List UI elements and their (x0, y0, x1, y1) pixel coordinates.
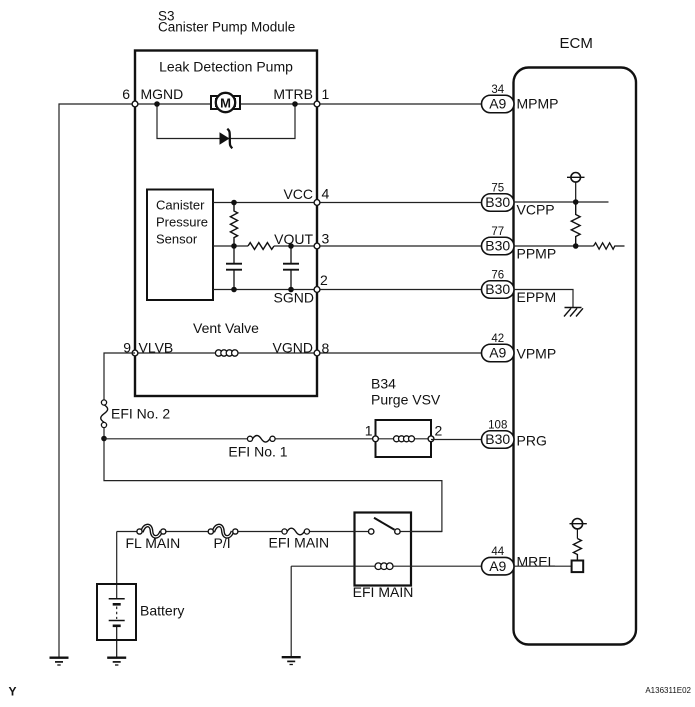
node PPMP junction (573, 243, 579, 249)
svg-text:MPMP: MPMP (517, 96, 559, 112)
wire VCC (213, 202, 482, 204)
svg-text:44: 44 (491, 546, 504, 558)
svg-text:2: 2 (435, 423, 443, 439)
svg-text:Purge VSV: Purge VSV (371, 392, 441, 408)
wire EPPM internal (514, 290, 574, 308)
fuse EFI No.2 (101, 400, 108, 428)
svg-text:3: 3 (322, 231, 330, 247)
ground EPPM signal (564, 308, 583, 317)
battery box (97, 584, 136, 640)
fuse P/I (208, 525, 238, 536)
svg-text:4: 4 (322, 186, 330, 202)
svg-text:A136311E02: A136311E02 (645, 686, 691, 695)
wire inside purge VSV (376, 438, 432, 440)
svg-text:VGND: VGND (273, 340, 313, 356)
resistor R1 vertical (230, 203, 237, 247)
driver box MREL (572, 561, 584, 573)
pin 3 VOUT (314, 243, 320, 249)
node VOUT-R1 (231, 243, 237, 249)
svg-text:SGND: SGND (274, 290, 314, 306)
node MTRB junction (292, 101, 298, 107)
capacitor C1 (226, 246, 242, 290)
svg-text:108: 108 (488, 420, 507, 432)
svg-text:A9: A9 (489, 345, 506, 361)
resistor R2 horizontal (248, 243, 274, 250)
svg-text:Sensor: Sensor (156, 232, 198, 247)
svg-text:EFI MAIN: EFI MAIN (353, 584, 414, 600)
svg-text:PRG: PRG (517, 433, 547, 449)
wire MGND left branch to ground (59, 104, 135, 658)
svg-text:VOUT: VOUT (274, 231, 313, 247)
relay contact left (369, 529, 374, 534)
canister pressure sensor box (147, 190, 213, 301)
svg-text:34: 34 (491, 84, 504, 96)
node VCPP junction (573, 199, 579, 205)
svg-text:MTRB: MTRB (273, 86, 313, 102)
svg-text:B30: B30 (485, 281, 510, 297)
svg-text:P/I: P/I (214, 535, 231, 551)
svg-text:B30: B30 (485, 194, 510, 210)
pin 4 VCC (314, 200, 320, 206)
motor M1 (211, 93, 240, 112)
capacitor C2 (283, 246, 299, 290)
svg-text:Canister Pump Module: Canister Pump Module (158, 20, 295, 35)
ground G1 (50, 658, 69, 665)
power symbol B+ VCPP (567, 173, 585, 203)
module box S3 Canister Pump Module (135, 51, 317, 397)
svg-text:77: 77 (491, 226, 504, 238)
resistor R4 PPMP (594, 243, 625, 249)
diode branch wire (157, 104, 295, 139)
svg-text:A9: A9 (489, 558, 506, 574)
pin 2 purge VSV (428, 436, 434, 442)
resistor R3 pull-up (571, 202, 580, 246)
wire VOUT (213, 245, 248, 247)
relay switch blade (374, 518, 395, 530)
connector 44 A9 MREL (482, 546, 515, 575)
node MGND junction (154, 101, 160, 107)
svg-text:B34: B34 (371, 376, 396, 392)
connector 42 A9 VPMP (482, 333, 515, 362)
pin 6 MGND (132, 101, 138, 107)
svg-text:FL MAIN: FL MAIN (126, 535, 181, 551)
resistor R5 MREL (573, 539, 581, 561)
pin 8 VGND (314, 350, 320, 356)
wire battery feed row (117, 531, 140, 533)
wire vent valve row (135, 352, 317, 354)
svg-text:ECM: ECM (560, 35, 593, 52)
diode D1 (220, 129, 233, 149)
wire relay coil row (291, 565, 481, 567)
fuse EFI No.1 (247, 436, 275, 443)
svg-text:VCPP: VCPP (517, 202, 555, 218)
wire MTRB to ECM connector (317, 103, 482, 105)
svg-text:Vent Valve: Vent Valve (193, 320, 259, 336)
inductor relay coil (375, 563, 393, 570)
relay box EFI MAIN (355, 513, 412, 586)
wire VCPP internal (514, 201, 609, 203)
svg-text:MGND: MGND (141, 86, 184, 102)
svg-text:VLVB: VLVB (139, 340, 174, 356)
wire EFI No.1 row (104, 438, 250, 440)
pin 1 MTRB (314, 101, 320, 107)
wire SGND (213, 289, 482, 291)
svg-text:B30: B30 (485, 431, 510, 447)
connector 77 B30 PPMP (482, 226, 515, 255)
svg-text:EFI MAIN: EFI MAIN (269, 535, 330, 551)
svg-text:EFI No. 2: EFI No. 2 (111, 406, 170, 422)
svg-text:1: 1 (365, 423, 373, 439)
svg-text:MREL: MREL (517, 554, 556, 570)
svg-text:6: 6 (122, 86, 130, 102)
svg-text:76: 76 (491, 270, 504, 282)
fuse FL MAIN (137, 525, 166, 536)
ground G2 battery (107, 658, 126, 665)
svg-text:VCC: VCC (283, 186, 313, 202)
svg-text:A9: A9 (489, 96, 506, 112)
pin 9 VLVB (132, 350, 138, 356)
svg-text:Leak Detection Pump: Leak Detection Pump (159, 59, 293, 75)
svg-text:EPPM: EPPM (517, 289, 557, 305)
connector 34 A9 MPMP (482, 84, 515, 113)
svg-text:Battery: Battery (140, 603, 184, 619)
power symbol B+ MREL (570, 519, 587, 539)
connector 108 B30 PRG (482, 420, 515, 449)
ground G3 (282, 657, 301, 664)
pin 1 purge VSV (373, 436, 379, 442)
battery cells (109, 599, 125, 658)
svg-text:8: 8 (322, 340, 330, 356)
svg-text:M: M (220, 96, 231, 111)
svg-text:1: 1 (322, 86, 330, 102)
wire PPMP internal (514, 245, 594, 247)
pin 2 SGND (314, 287, 320, 293)
purge VSV box B34 (376, 420, 432, 457)
svg-text:75: 75 (491, 183, 504, 195)
svg-text:2: 2 (320, 272, 328, 288)
svg-text:EFI No. 1: EFI No. 1 (228, 444, 287, 460)
svg-text:PPMP: PPMP (517, 246, 557, 262)
relay contact right (395, 529, 400, 534)
node EFI junction (101, 436, 107, 442)
svg-text:B30: B30 (485, 238, 510, 254)
connector 75 B30 VCPP (482, 183, 515, 212)
wire battery top (116, 532, 118, 599)
wire relay coil to ground (290, 566, 292, 657)
svg-text:Y: Y (9, 685, 17, 699)
fuse EFI MAIN (282, 528, 310, 535)
wire fuse to junction and down (104, 428, 442, 532)
svg-text:42: 42 (491, 333, 504, 345)
wire relay switch row (307, 531, 372, 533)
node VOUT-C2 (288, 243, 294, 249)
wire VLVB down from pin9 (104, 353, 135, 400)
wire motor line MGND to MTRB (135, 103, 317, 105)
wire MREL internal (514, 565, 572, 567)
svg-text:Pressure: Pressure (156, 215, 208, 230)
ECM box (514, 68, 637, 645)
node SGND-C1 (231, 287, 237, 293)
wire VPMP to ECM (317, 352, 482, 354)
svg-text:Canister: Canister (156, 198, 205, 213)
inductor purge VSV coil (394, 436, 415, 442)
node VCC-R1 (231, 200, 237, 206)
wire PRG to ECM (431, 439, 482, 441)
connector 76 B30 EPPM (482, 270, 515, 299)
inductor vent valve coil (215, 350, 238, 356)
node SGND-C2 (288, 287, 294, 293)
svg-text:VPMP: VPMP (517, 346, 557, 362)
